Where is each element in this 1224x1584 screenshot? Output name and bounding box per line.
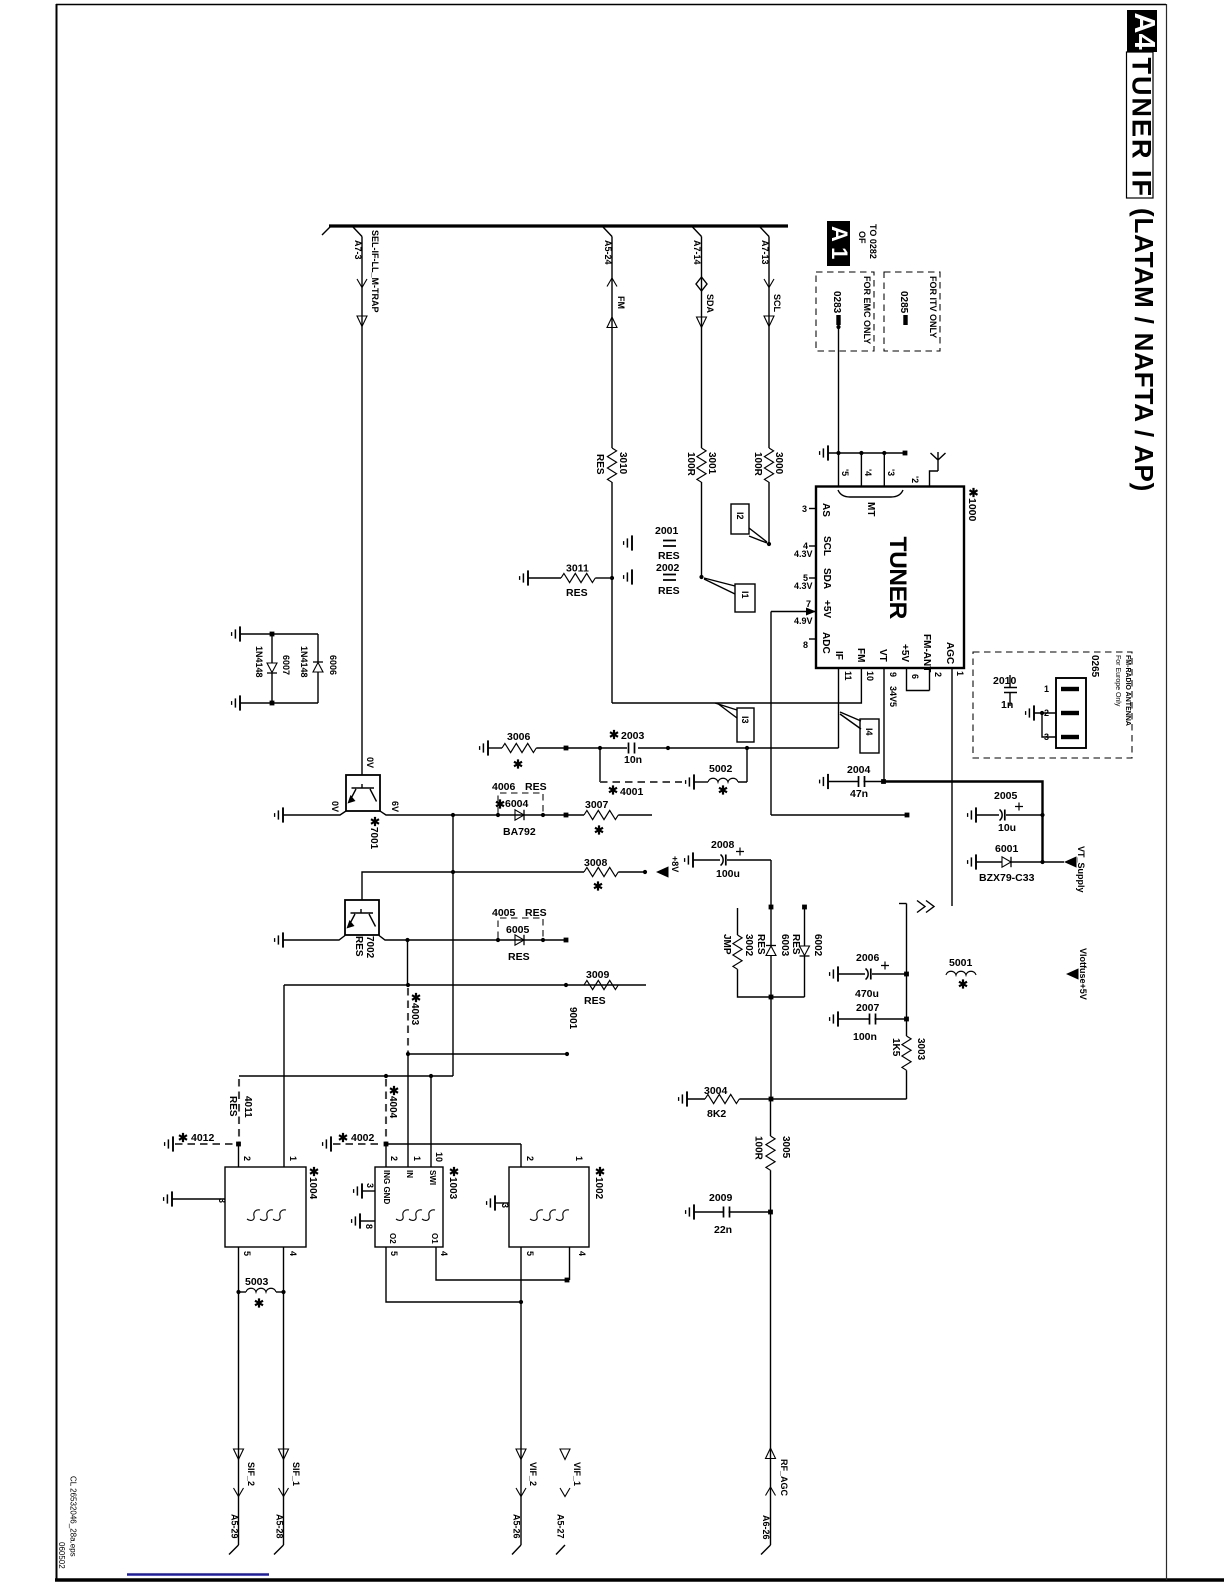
svg-text:100R: 100R bbox=[753, 1136, 764, 1161]
svg-text:OF: OF bbox=[857, 231, 867, 244]
svg-text:1: 1 bbox=[955, 671, 965, 676]
wire 7002 left pin bbox=[283, 936, 345, 941]
svg-text:'2: '2 bbox=[910, 476, 920, 483]
ground 2008 bbox=[685, 852, 693, 867]
svg-text:'5: '5 bbox=[840, 469, 850, 476]
svg-text:ADC: ADC bbox=[820, 632, 831, 654]
tuner left pin 3 AS bbox=[809, 508, 816, 510]
svg-text:FM-RADIO ANTENNA: FM-RADIO ANTENNA bbox=[1124, 655, 1131, 726]
svg-text:0265: 0265 bbox=[1089, 655, 1100, 678]
junction 0283 wire dot bbox=[836, 325, 840, 329]
svg-text:IN: IN bbox=[405, 1170, 414, 1178]
chevron down SEL-IF bbox=[357, 279, 367, 288]
svg-text:RES: RES bbox=[755, 934, 766, 955]
svg-text:3005: 3005 bbox=[780, 1136, 791, 1159]
svg-text:0V: 0V bbox=[365, 757, 375, 768]
wire pin7 rail to terminal bbox=[771, 814, 907, 816]
svg-text:10u: 10u bbox=[998, 822, 1016, 834]
capacitor 2008 100u bbox=[693, 859, 720, 861]
svg-text:1004: 1004 bbox=[307, 1177, 318, 1200]
wire FM pin down and left bbox=[612, 668, 861, 703]
svg-text:4006: 4006 bbox=[492, 781, 516, 793]
svg-text:9: 9 bbox=[888, 672, 898, 677]
flag I3 box bbox=[737, 708, 754, 742]
ground 4002 bbox=[323, 1136, 331, 1151]
wire 7001 right pin bbox=[380, 811, 453, 815]
svg-text:AS: AS bbox=[820, 503, 831, 517]
svg-text:RES: RES bbox=[508, 951, 530, 963]
svg-text:7002: 7002 bbox=[364, 936, 375, 959]
svg-text:3007: 3007 bbox=[585, 799, 609, 811]
svg-text:4.3V: 4.3V bbox=[794, 549, 813, 559]
terminal square +5V rail bbox=[905, 813, 910, 818]
svg-text:7: 7 bbox=[806, 599, 811, 609]
pin 7 arrow bbox=[806, 608, 816, 616]
svg-text:2002: 2002 bbox=[656, 562, 680, 574]
svg-text:SEL-IF-LL_M-TRAP: SEL-IF-LL_M-TRAP bbox=[370, 230, 380, 313]
svg-text:3002: 3002 bbox=[743, 934, 754, 957]
diode 6007 branch bbox=[271, 634, 273, 703]
junction 2006 bbox=[904, 972, 909, 977]
svg-text:1: 1 bbox=[412, 1156, 422, 1161]
wire VIF_2 down bbox=[520, 1302, 522, 1545]
jumper 4001 dashed bbox=[600, 781, 682, 783]
ground 3004 bbox=[679, 1091, 687, 1106]
tuner left pin 5 SDA bbox=[809, 577, 816, 579]
ground 3011 bbox=[520, 570, 528, 585]
svg-text:+8V: +8V bbox=[670, 856, 680, 872]
svg-text:FOR ITV ONLY: FOR ITV ONLY bbox=[928, 276, 938, 338]
ground 6001 bbox=[968, 854, 976, 869]
connector tick A5-24 bbox=[603, 227, 612, 237]
resistor 3000 bbox=[764, 448, 773, 482]
label *1000 bbox=[970, 488, 978, 497]
wire 6006/6007 top rail bbox=[240, 633, 318, 635]
ground 7001 left bbox=[275, 807, 283, 822]
ground 2006 bbox=[830, 966, 838, 981]
svg-text:'3: '3 bbox=[886, 469, 896, 476]
wire SWI drop bbox=[430, 1076, 432, 1167]
svg-text:3011: 3011 bbox=[566, 563, 589, 575]
svg-text:RES: RES bbox=[353, 936, 364, 957]
border frame left bbox=[56, 4, 58, 1581]
connector tick A7-13 bbox=[760, 227, 769, 237]
junction 2003 right bbox=[666, 746, 670, 750]
tuner box 1000 bbox=[816, 487, 964, 669]
junction 6004 row / riser bbox=[451, 813, 455, 817]
output SIF_1 bbox=[279, 1449, 289, 1460]
svg-text:1003: 1003 bbox=[447, 1177, 458, 1200]
svg-text:1: 1 bbox=[574, 1156, 584, 1161]
wire 1144 row to 1002 pin2 bbox=[386, 1144, 521, 1167]
junction 4006 left bbox=[496, 813, 500, 817]
svg-text:SIF_2: SIF_2 bbox=[246, 1462, 256, 1486]
svg-text:1K5: 1K5 bbox=[890, 1038, 901, 1057]
pin stub '3 bbox=[883, 453, 885, 486]
svg-text:+5V: +5V bbox=[821, 600, 832, 618]
border frame bottom bbox=[55, 1578, 1224, 1581]
ground 4012 bbox=[165, 1136, 173, 1151]
junction 2009/trunk bbox=[768, 1210, 773, 1215]
svg-text:4: 4 bbox=[577, 1251, 587, 1256]
capacitor 2004 47n bbox=[828, 781, 858, 783]
capacitor 2001 plates bbox=[663, 541, 676, 547]
flag I2 leader bbox=[749, 528, 767, 543]
svg-text:6007: 6007 bbox=[281, 655, 291, 675]
svg-text:5002: 5002 bbox=[709, 763, 733, 775]
svg-text:MT: MT bbox=[865, 502, 876, 516]
junction 7002/4003 riser bbox=[405, 938, 409, 942]
wire SIF_1 down bbox=[283, 1292, 285, 1545]
node SDA end dot bbox=[699, 575, 703, 579]
svg-text:6V: 6V bbox=[390, 801, 400, 812]
svg-text:8K2: 8K2 bbox=[707, 1108, 726, 1120]
resistor 3001 bbox=[697, 448, 706, 482]
wire RF_AGC trunk lower bbox=[770, 1212, 772, 1545]
svg-text:BZX79-C33: BZX79-C33 bbox=[979, 872, 1035, 884]
svg-text:SWI: SWI bbox=[428, 1170, 437, 1185]
ground 2005 bbox=[968, 807, 976, 822]
svg-text:6: 6 bbox=[910, 674, 920, 679]
dashed bracket 4006 bbox=[498, 793, 543, 813]
resistor 3007 bbox=[566, 814, 584, 816]
svg-text:O1: O1 bbox=[430, 1233, 439, 1244]
capacitor 2003 10n bbox=[627, 742, 638, 754]
wire O2 to VIF_2 bbox=[386, 1247, 521, 1302]
svg-text:IF: IF bbox=[833, 651, 844, 660]
terminal square 3007 bbox=[564, 813, 569, 818]
ground 1003 pin3 bbox=[354, 1183, 362, 1198]
svg-text:2005: 2005 bbox=[994, 790, 1018, 802]
svg-text:6001: 6001 bbox=[995, 843, 1019, 855]
svg-text:4012: 4012 bbox=[191, 1132, 215, 1144]
wire 2008 trunk down bbox=[770, 860, 772, 946]
svg-text:2: 2 bbox=[525, 1156, 535, 1161]
svg-text:10n: 10n bbox=[624, 754, 642, 766]
resistor 3004 8K2 bbox=[687, 1098, 705, 1100]
svg-text:470u: 470u bbox=[855, 988, 879, 1000]
svg-text:BA792: BA792 bbox=[503, 826, 536, 838]
filter block 1002 bbox=[509, 1167, 589, 1247]
svg-text:RES: RES bbox=[525, 907, 547, 919]
wire 1002 pin5 down bbox=[520, 1247, 522, 1302]
connector arrow SDA bbox=[697, 317, 707, 328]
resistor 3005 100R on trunk bbox=[766, 1136, 775, 1170]
wire AGC jump tick bbox=[899, 903, 907, 905]
wire to 1004 pin1 bbox=[283, 985, 285, 1167]
wire VT supply rail thick bbox=[884, 782, 1043, 863]
svg-text:+5V: +5V bbox=[899, 644, 910, 662]
svg-text:3004: 3004 bbox=[704, 1085, 728, 1097]
svg-text:RES: RES bbox=[790, 934, 801, 955]
ground 1002 pin3 bbox=[487, 1195, 495, 1210]
svg-text:47n: 47n bbox=[850, 788, 868, 800]
wire link 9001 bbox=[408, 1053, 567, 1055]
svg-text:A5-27: A5-27 bbox=[556, 1514, 566, 1539]
svg-text:SDA: SDA bbox=[821, 568, 832, 589]
border frame right (title separator) bbox=[1166, 4, 1168, 1580]
diode 6001 BZX79-C33 bbox=[976, 861, 1002, 863]
transistor 7002 symbol bbox=[350, 909, 376, 927]
svg-text:3003: 3003 bbox=[915, 1038, 926, 1061]
svg-text:8: 8 bbox=[364, 1224, 374, 1229]
transistor 7001 symbol bbox=[351, 784, 377, 802]
svg-text:A6-26: A6-26 bbox=[761, 1515, 771, 1540]
wire 6004 row bbox=[453, 814, 566, 816]
transistor 7001 box bbox=[346, 775, 380, 811]
svg-text:RF_AGC: RF_AGC bbox=[779, 1459, 789, 1497]
svg-text:4001: 4001 bbox=[620, 786, 644, 798]
diode 6002 branch bbox=[802, 905, 807, 910]
wire 6006/6007 bottom rail bbox=[240, 702, 318, 704]
svg-text:2007: 2007 bbox=[856, 1002, 880, 1014]
svg-text:TUNER IF: TUNER IF bbox=[1127, 58, 1157, 199]
junction 4004 top bbox=[384, 1074, 388, 1078]
terminal square 6005 row bbox=[564, 938, 569, 943]
svg-text:SIF_1: SIF_1 bbox=[291, 1462, 301, 1486]
svg-text:SDA: SDA bbox=[705, 294, 715, 314]
svg-text:5001: 5001 bbox=[949, 957, 973, 969]
terminal square IF row left bbox=[564, 746, 569, 751]
label *7001 bbox=[371, 817, 379, 826]
output SIF_2 bbox=[234, 1449, 244, 1460]
jumper 4011 dashed bbox=[238, 1079, 240, 1142]
svg-text:5003: 5003 bbox=[245, 1276, 269, 1288]
svg-text:Vlotfuse+5V: Vlotfuse+5V bbox=[1078, 948, 1088, 1000]
filter block 1003 bbox=[375, 1167, 443, 1247]
svg-text:9001: 9001 bbox=[567, 1007, 578, 1030]
flag I1 leader bbox=[704, 578, 735, 594]
diode 6005 bbox=[515, 935, 524, 945]
junction trunk bottom square bbox=[769, 995, 774, 1000]
svg-text:FM: FM bbox=[616, 296, 626, 309]
svg-text:A4: A4 bbox=[1128, 13, 1160, 50]
svg-text:1n: 1n bbox=[1001, 699, 1013, 711]
supply arrow VT_Supply bbox=[1064, 856, 1077, 867]
wire SDA lower bbox=[701, 482, 703, 577]
svg-text:4: 4 bbox=[288, 1251, 298, 1256]
flag I4 box bbox=[860, 719, 879, 753]
flag I1 box bbox=[735, 584, 755, 612]
svg-text:3009: 3009 bbox=[586, 969, 610, 981]
svg-text:FOR EMC ONLY: FOR EMC ONLY bbox=[862, 276, 872, 344]
wire 6V riser corner to 1076 row bbox=[239, 1075, 453, 1077]
junction riser 3008 row bbox=[451, 870, 455, 874]
wire 0265 pin2/3 to ground bbox=[1034, 713, 1056, 737]
ground 5002 bbox=[686, 774, 694, 789]
svg-text:CL 26532046_28a.eps: CL 26532046_28a.eps bbox=[69, 1476, 78, 1557]
svg-text:10: 10 bbox=[434, 1152, 444, 1162]
wire 7002 right pin bbox=[379, 936, 566, 941]
output RF_AGC bbox=[766, 1448, 776, 1459]
svg-text:3008: 3008 bbox=[584, 857, 608, 869]
svg-text:A7-14: A7-14 bbox=[692, 240, 702, 265]
svg-text:RES: RES bbox=[566, 587, 588, 599]
pin stub '5 bbox=[838, 453, 840, 486]
svg-text:4004: 4004 bbox=[387, 1096, 398, 1119]
connector 0265 box bbox=[1056, 678, 1086, 748]
svg-text:060502: 060502 bbox=[57, 1542, 66, 1569]
junction 4001 riser bbox=[598, 746, 602, 750]
connector arrow SCL bbox=[764, 316, 774, 327]
svg-text:2010: 2010 bbox=[993, 675, 1017, 687]
junction 6001/rail bbox=[1040, 860, 1044, 864]
svg-text:4005: 4005 bbox=[492, 907, 516, 919]
junction 4006 right bbox=[541, 813, 545, 817]
diamond SDA bbox=[696, 277, 707, 291]
ground 2007 bbox=[830, 1011, 838, 1026]
wire FM vertical lower bbox=[611, 482, 613, 703]
svg-text:6002: 6002 bbox=[812, 934, 823, 957]
wire 7002 top pin riser bbox=[362, 872, 453, 900]
wire 9001 row bbox=[284, 984, 646, 986]
connector arrow FM up bbox=[607, 317, 617, 328]
svg-text:SCL: SCL bbox=[772, 294, 782, 313]
svg-text:FM: FM bbox=[855, 648, 866, 662]
wire FM-ANT pin stub bbox=[929, 668, 931, 691]
junction 4005 right bbox=[541, 938, 545, 942]
wire AGC branch down bbox=[906, 904, 908, 1037]
sheet label A4 black box bbox=[1127, 10, 1157, 52]
resistor 3008 bbox=[453, 871, 584, 873]
svg-text:2008: 2008 bbox=[711, 839, 735, 851]
wire SIF_2 down bbox=[238, 1292, 240, 1545]
svg-text:10: 10 bbox=[865, 671, 875, 681]
connector tick A7-14 bbox=[693, 227, 702, 237]
ground 2009 bbox=[686, 1204, 694, 1219]
svg-text:2001: 2001 bbox=[655, 525, 679, 537]
svg-text:2006: 2006 bbox=[856, 952, 880, 964]
svg-text:I3: I3 bbox=[740, 716, 750, 724]
small dot 3009 left bbox=[564, 983, 568, 987]
wire FM vertical upper bbox=[611, 237, 613, 449]
diode 6003 on trunk bbox=[766, 946, 776, 956]
svg-text:RES: RES bbox=[594, 454, 605, 475]
svg-text:A5-26: A5-26 bbox=[512, 1514, 522, 1539]
svg-text:100u: 100u bbox=[716, 868, 740, 880]
jumper 4012 dashed bbox=[175, 1143, 234, 1145]
ground 7002 left bbox=[275, 932, 283, 947]
antenna symbol bbox=[930, 452, 946, 486]
ground 0265 bbox=[1026, 705, 1034, 720]
coils 1004 bbox=[247, 1210, 260, 1221]
bus end tick bbox=[322, 227, 330, 235]
svg-text:0283: 0283 bbox=[831, 291, 842, 314]
flag I4 leader bbox=[840, 712, 861, 729]
svg-text:0285: 0285 bbox=[898, 291, 909, 314]
junction trunk square bbox=[769, 905, 774, 910]
wire SDA vertical bbox=[701, 237, 703, 449]
junction 4003/9001 bbox=[406, 983, 410, 987]
junction 9001 stub bbox=[406, 1052, 410, 1056]
junction 4005 left bbox=[496, 938, 500, 942]
svg-text:3: 3 bbox=[500, 1203, 510, 1208]
svg-text:0V: 0V bbox=[330, 801, 340, 812]
svg-text:'4: '4 bbox=[863, 469, 873, 476]
junction 4012/4011 bbox=[236, 1142, 241, 1147]
border frame top bbox=[56, 4, 1166, 6]
connector arrow SEL-IF bbox=[357, 316, 367, 327]
svg-text:I1: I1 bbox=[740, 591, 750, 599]
inductor 5003 bbox=[239, 1247, 284, 1292]
junction 4002/4004 bbox=[384, 1142, 389, 1147]
link 0285 bar bbox=[903, 315, 907, 325]
bus top-left thick bbox=[329, 224, 788, 227]
svg-text:RES: RES bbox=[584, 995, 606, 1007]
junction 2007 bbox=[904, 1017, 909, 1022]
svg-text:6006: 6006 bbox=[328, 655, 338, 675]
sheet ref A1 black box bbox=[827, 221, 850, 266]
svg-text:6003: 6003 bbox=[779, 934, 790, 957]
dashed bracket 4005 bbox=[498, 918, 543, 938]
wire 7002 right pin drop bbox=[407, 940, 409, 985]
svg-text:100n: 100n bbox=[853, 1031, 877, 1043]
resistor 3002 JMP branch bbox=[737, 908, 739, 935]
svg-text:11: 11 bbox=[843, 671, 853, 681]
svg-text:VIF_1: VIF_1 bbox=[572, 1462, 582, 1486]
ground 6006/6007 top bbox=[232, 626, 240, 641]
wire MT rail bbox=[828, 452, 906, 454]
svg-text:(LATAM / NAFTA / AP): (LATAM / NAFTA / AP) bbox=[1129, 208, 1159, 492]
wire 4004 to 1003 pin2 bbox=[385, 1144, 387, 1167]
junction 5002 riser bbox=[745, 746, 749, 750]
tuner left pin 4 SCL bbox=[809, 545, 816, 547]
output VIF_2 bbox=[516, 1449, 526, 1460]
jumper 4002 dashed bbox=[333, 1143, 382, 1145]
svg-text:4002: 4002 bbox=[351, 1132, 375, 1144]
capacitor 2007 100n bbox=[838, 1018, 869, 1020]
wire IF pin down bbox=[838, 668, 840, 748]
chevron up FM bbox=[607, 278, 617, 287]
connector tick A7-3 bbox=[353, 227, 362, 237]
ground MT rail bbox=[820, 445, 828, 460]
svg-text:2: 2 bbox=[389, 1156, 399, 1161]
ground 3006 bbox=[480, 740, 488, 755]
wire O1 row bbox=[436, 1247, 567, 1280]
svg-text:2003: 2003 bbox=[621, 730, 645, 742]
flag I2 box bbox=[731, 504, 749, 534]
svg-text:VT: VT bbox=[877, 649, 888, 662]
svg-text:4003: 4003 bbox=[409, 1003, 420, 1026]
svg-text:7001: 7001 bbox=[368, 827, 379, 850]
svg-text:FM-ANT: FM-ANT bbox=[921, 634, 932, 672]
capacitor 2005 10u bbox=[976, 814, 999, 816]
svg-text:1: 1 bbox=[288, 1156, 298, 1161]
dashed box FOR EMC ONLY bbox=[816, 272, 874, 351]
svg-text:100R: 100R bbox=[685, 452, 696, 477]
svg-text:1: 1 bbox=[1044, 684, 1049, 694]
svg-text:RES: RES bbox=[658, 550, 680, 562]
svg-text:1000: 1000 bbox=[966, 498, 978, 522]
tuner left pin 8 ADC bbox=[809, 638, 816, 640]
terminal square O1 bbox=[565, 1278, 570, 1283]
wire SCL vertical bbox=[768, 237, 770, 449]
jumper 4003 dashed bbox=[407, 988, 409, 1052]
rail end terminal '2 bbox=[903, 451, 908, 456]
blue underline mark bbox=[127, 1573, 269, 1576]
junction 3004/trunk bbox=[769, 1097, 774, 1102]
svg-text:3010: 3010 bbox=[617, 452, 628, 475]
svg-text:3: 3 bbox=[365, 1183, 375, 1188]
svg-text:TUNER: TUNER bbox=[884, 537, 911, 620]
output VIF_1 (open) bbox=[560, 1449, 570, 1460]
svg-text:3006: 3006 bbox=[507, 731, 531, 743]
resistor 3006 bbox=[488, 747, 502, 749]
junction VIF_2 bbox=[519, 1300, 523, 1304]
link 0283 bar bbox=[836, 315, 840, 325]
svg-text:4011: 4011 bbox=[242, 1096, 253, 1118]
connector 0265 pin bars bbox=[1061, 687, 1079, 691]
